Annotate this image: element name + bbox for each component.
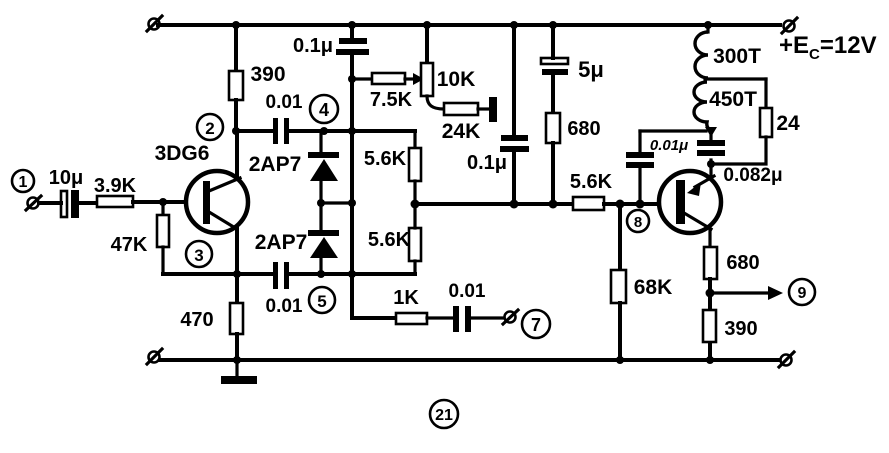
svg-text:24K: 24K — [442, 120, 481, 143]
label 390 right — [724, 318, 757, 340]
svg-text:10K: 10K — [437, 68, 476, 91]
label 5.6K series — [570, 171, 613, 193]
label 0.01 output — [449, 281, 486, 302]
label 10K — [437, 68, 476, 91]
label 68K — [634, 276, 673, 299]
node 3 — [186, 241, 212, 267]
terminal bottom-right (slashed circle) — [779, 352, 794, 367]
inductor 450T secondary — [694, 82, 710, 130]
svg-text:0.01: 0.01 — [449, 281, 486, 302]
resistor 1K — [396, 313, 453, 324]
capacitor 0.1u decoupling (left) — [336, 21, 369, 55]
node 1 (input terminal label) — [12, 170, 34, 192]
capacitor 0.01u feedback — [626, 131, 654, 204]
terminal bar end of 24K — [489, 97, 497, 122]
svg-text:300T: 300T — [713, 45, 761, 68]
svg-text:0.01: 0.01 — [266, 296, 303, 317]
diode 2AP7 upper — [308, 131, 339, 231]
label 390 — [250, 63, 285, 86]
svg-text:3: 3 — [194, 246, 203, 265]
resistor 5.6K upper (divider) — [409, 131, 421, 204]
capacitor 0.1u (right) — [500, 21, 529, 204]
label 0.01 — [266, 92, 303, 113]
label 3.9K — [94, 175, 137, 197]
svg-text:10μ: 10μ — [49, 167, 83, 189]
label 0.01u — [650, 137, 688, 154]
label 7.5K — [370, 89, 413, 111]
transistor Q2 — [659, 171, 721, 233]
wire emitter bottom line y274 with series cap — [163, 270, 415, 278]
svg-text:24: 24 — [776, 112, 800, 135]
inductor 300T primary — [695, 21, 712, 78]
terminal bottom-left (slashed circle) — [147, 349, 162, 364]
resistor 68K base bias Q2 — [611, 204, 626, 364]
diode 2AP7 lower — [308, 230, 339, 274]
svg-text:9: 9 — [798, 285, 807, 302]
svg-text:47K: 47K — [111, 234, 148, 256]
wire collector Q2 up — [707, 160, 715, 176]
svg-text:680: 680 — [726, 252, 759, 274]
svg-text:5.6K: 5.6K — [570, 171, 613, 193]
svg-text:5: 5 — [317, 292, 326, 311]
capacitor 0.01 (emitter line) — [273, 262, 289, 289]
terminal top-left (slashed circle) — [147, 16, 162, 31]
svg-text:2AP7: 2AP7 — [255, 231, 308, 254]
label 47K — [111, 234, 148, 256]
wire output to node 9 with arrow — [710, 286, 783, 300]
resistor 680 emitter Q2 — [704, 229, 717, 364]
label 2AP7 upper — [249, 153, 302, 176]
wire emitter Q1 down — [235, 228, 239, 274]
svg-text:4: 4 — [319, 100, 329, 120]
label 24 — [776, 112, 800, 135]
label 5.6K upper — [364, 148, 407, 170]
svg-text:5μ: 5μ — [578, 57, 604, 82]
wire collector Q1 up to node 2 junction — [232, 127, 240, 177]
svg-text:5.6K: 5.6K — [364, 148, 407, 170]
svg-text:+EC=12V: +EC=12V — [779, 32, 877, 63]
wire top supply rail — [158, 23, 780, 27]
node 8 — [627, 210, 649, 232]
svg-text:1K: 1K — [393, 287, 419, 309]
label 680 left — [567, 118, 600, 140]
wire coil tap to 24 ohm branch — [705, 77, 766, 80]
label 10u — [49, 167, 83, 189]
svg-text:0.1μ: 0.1μ — [467, 152, 507, 174]
svg-text:7.5K: 7.5K — [370, 89, 413, 111]
wire bottom rail — [160, 358, 779, 362]
terminal top-right (slashed circle) — [782, 18, 797, 33]
svg-text:5.6K: 5.6K — [368, 229, 411, 251]
resistor 24K — [444, 103, 489, 115]
capacitor 0.082u — [697, 131, 725, 156]
potentiometer 10K — [421, 21, 444, 109]
resistor 470 emitter Q1 — [230, 274, 243, 364]
svg-text:2: 2 — [205, 119, 214, 138]
terminal output 7 (slashed circle) — [503, 310, 518, 324]
svg-text:390: 390 — [250, 63, 285, 86]
wire diode midpoint to x352 line — [317, 199, 356, 207]
svg-text:68K: 68K — [634, 276, 673, 299]
svg-text:0.082μ: 0.082μ — [723, 165, 782, 186]
label 0.1u left — [293, 35, 333, 57]
label 0.01 lower — [266, 296, 303, 317]
label 300T — [713, 45, 761, 68]
label +Ec=12V — [779, 32, 877, 63]
label 5.6K lower — [368, 229, 411, 251]
node 9 — [789, 279, 815, 305]
svg-text:21: 21 — [435, 407, 453, 424]
ground symbol — [221, 360, 257, 384]
capacitor 0.01 coupling node2-node4 — [273, 118, 289, 144]
wire middle rail y204 — [411, 200, 574, 209]
capacitor 5u electrolytic — [541, 21, 568, 113]
wire x352 vertical line — [348, 55, 356, 318]
wire x352 to 1K output line — [352, 316, 396, 320]
resistor 47K base bias — [157, 202, 169, 274]
label 2AP7 lower — [255, 231, 308, 254]
capacitor 0.01 output — [453, 306, 503, 332]
svg-text:8: 8 — [634, 214, 642, 231]
label 680 right — [726, 252, 759, 274]
resistor 3.9K series input — [97, 196, 133, 207]
label 470 — [180, 309, 213, 331]
label 450T — [709, 88, 757, 111]
svg-text:2AP7: 2AP7 — [249, 153, 302, 176]
resistor 5.6K lower (divider) — [409, 204, 421, 274]
node 5 — [309, 287, 335, 313]
svg-text:680: 680 — [567, 118, 600, 140]
resistor 7.5K — [352, 73, 424, 85]
label 0.082u — [723, 165, 782, 186]
node 21 (figure number) — [430, 400, 458, 428]
resistor 24 — [711, 79, 772, 164]
svg-text:0.1μ: 0.1μ — [293, 35, 333, 57]
resistor 390 collector load Q1 — [229, 21, 243, 131]
label 1K — [393, 287, 419, 309]
wire 0.01u top to coil bottom junction — [640, 127, 717, 137]
svg-text:3DG6: 3DG6 — [155, 142, 210, 165]
node 7 — [522, 310, 550, 338]
label 3DG6 — [155, 142, 210, 165]
svg-text:7: 7 — [531, 315, 541, 335]
svg-text:0.01μ: 0.01μ — [650, 137, 688, 154]
label 0.1u right — [467, 152, 507, 174]
label 24K — [442, 120, 481, 143]
label 5u — [578, 57, 604, 82]
wire input to C1 — [39, 201, 61, 205]
svg-text:450T: 450T — [709, 88, 757, 111]
resistor 390 emitter Q2 — [703, 310, 716, 342]
capacitor 10u input coupling — [61, 190, 97, 218]
svg-text:1: 1 — [19, 174, 28, 191]
transistor Q1 3DG6 — [186, 171, 248, 233]
node 4 — [310, 95, 338, 123]
svg-text:390: 390 — [724, 318, 757, 340]
svg-text:0.01: 0.01 — [266, 92, 303, 113]
wire node2 line y131 with series cap — [236, 127, 415, 135]
node 2 — [197, 114, 223, 140]
wire 3.9K to base Q1 — [133, 198, 186, 206]
svg-text:3.9K: 3.9K — [94, 175, 137, 197]
resistor 680 (from 5u) — [546, 113, 560, 204]
terminal input (slashed circle) — [26, 196, 41, 210]
resistor 5.6K series (middle rail) — [573, 197, 658, 210]
svg-text:470: 470 — [180, 309, 213, 331]
